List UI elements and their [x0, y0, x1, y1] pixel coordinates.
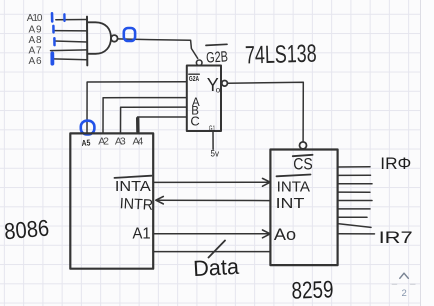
- svg-text:A5: A5: [81, 137, 91, 148]
- ui chevron: [400, 273, 409, 278]
- blue tick A6: [50, 53, 54, 63]
- wire IR extra: [338, 224, 371, 228]
- svg-text:INT: INT: [276, 195, 305, 212]
- wire IR3: [338, 191, 370, 193]
- svg-text:A6: A6: [29, 56, 42, 67]
- wire INT to INTR: [158, 199, 270, 201]
- svg-text:8086: 8086: [3, 215, 50, 245]
- wire IR4: [338, 200, 372, 202]
- wire A4 to C: [138, 117, 187, 133]
- label G2B with overline: [206, 44, 227, 45]
- arrowhead INTA: [263, 178, 271, 186]
- wire A8 input: [55, 41, 88, 42]
- pic 8259 body: [270, 150, 337, 266]
- blue annotation 0 at nand output: [124, 28, 135, 41]
- wire IR6: [338, 216, 367, 218]
- svg-text:8259: 8259: [291, 276, 334, 304]
- wire IR1: [338, 174, 371, 176]
- wire A3 to B: [121, 107, 187, 133]
- blue tick A8: [53, 38, 56, 45]
- svg-text:2: 2: [402, 288, 407, 299]
- blue tick A9: [52, 26, 55, 33]
- arrowhead INTR: [156, 197, 164, 204]
- svg-text:C: C: [190, 113, 199, 128]
- svg-text:A2: A2: [98, 136, 109, 148]
- wire A7 input: [51, 49, 88, 52]
- wire A5 to G2A: [87, 82, 187, 134]
- wire A9 input: [54, 30, 88, 32]
- pin CS label with overline: [293, 155, 313, 156]
- svg-text:A1: A1: [133, 225, 151, 242]
- blue tick A10 a: [51, 13, 54, 21]
- svg-text:o: o: [216, 86, 221, 95]
- svg-text:74LS138: 74LS138: [245, 40, 317, 70]
- pin G2A label with overline: [189, 73, 200, 75]
- svg-text:A8: A8: [29, 35, 42, 46]
- svg-text:IRΦ: IRΦ: [380, 155, 411, 173]
- wire IR2: [338, 183, 372, 185]
- svg-text:5v: 5v: [211, 149, 220, 159]
- svg-text:INTA: INTA: [115, 178, 151, 195]
- pin INTA label with overline: [115, 176, 152, 178]
- svg-text:G1: G1: [209, 123, 215, 132]
- pin INTA label with overline (8259): [277, 175, 311, 177]
- wire A2 to A: [103, 98, 187, 134]
- svg-text:A10: A10: [27, 13, 43, 24]
- blue tick A10 b: [63, 14, 65, 21]
- wire IR5: [338, 208, 370, 210]
- nand U1 output bubble: [111, 35, 118, 42]
- svg-text:A4: A4: [133, 136, 144, 148]
- svg-text:INTR: INTR: [119, 195, 153, 214]
- wire Y0 to CS of 8259: [227, 82, 303, 141]
- svg-text:A9: A9: [29, 24, 42, 35]
- svg-text:IR7: IR7: [379, 229, 413, 247]
- wire A1 to A0: [153, 233, 268, 235]
- wire data bus: [153, 251, 270, 253]
- wire INTA: [153, 181, 268, 183]
- nand U1 input bar: [86, 17, 88, 66]
- svg-text:G2B: G2B: [206, 48, 229, 66]
- cpu 8086 body: [70, 133, 153, 268]
- svg-text:INTA: INTA: [277, 179, 310, 196]
- arrowhead A0: [263, 230, 271, 238]
- svg-text:Data: Data: [193, 254, 241, 281]
- pin Y0 bubble: [222, 81, 228, 87]
- svg-text:Ao: Ao: [274, 225, 296, 244]
- wire A6 input: [53, 58, 87, 61]
- svg-text:A7: A7: [29, 45, 42, 56]
- nand U1 body: [87, 22, 111, 54]
- wire nand output to G2B: [118, 39, 198, 59]
- svg-text:A3: A3: [115, 136, 126, 148]
- wire IR7: [338, 233, 375, 235]
- wire IR0: [338, 166, 370, 168]
- G2B pin bubble: [196, 60, 202, 66]
- decoder U2 74LS138 body: [187, 66, 221, 132]
- wire A10 input: [56, 19, 87, 21]
- blue annotation circle on A5: [81, 121, 95, 135]
- bus slash: [209, 241, 226, 258]
- svg-text:G2A: G2A: [189, 74, 200, 83]
- svg-text:CS: CS: [293, 155, 313, 174]
- ui dash: [392, 283, 415, 285]
- CS pin bubble on 8259: [300, 142, 307, 149]
- wire G1 to 5v: [212, 131, 214, 149]
- ink blob on A4 wire: [136, 119, 140, 132]
